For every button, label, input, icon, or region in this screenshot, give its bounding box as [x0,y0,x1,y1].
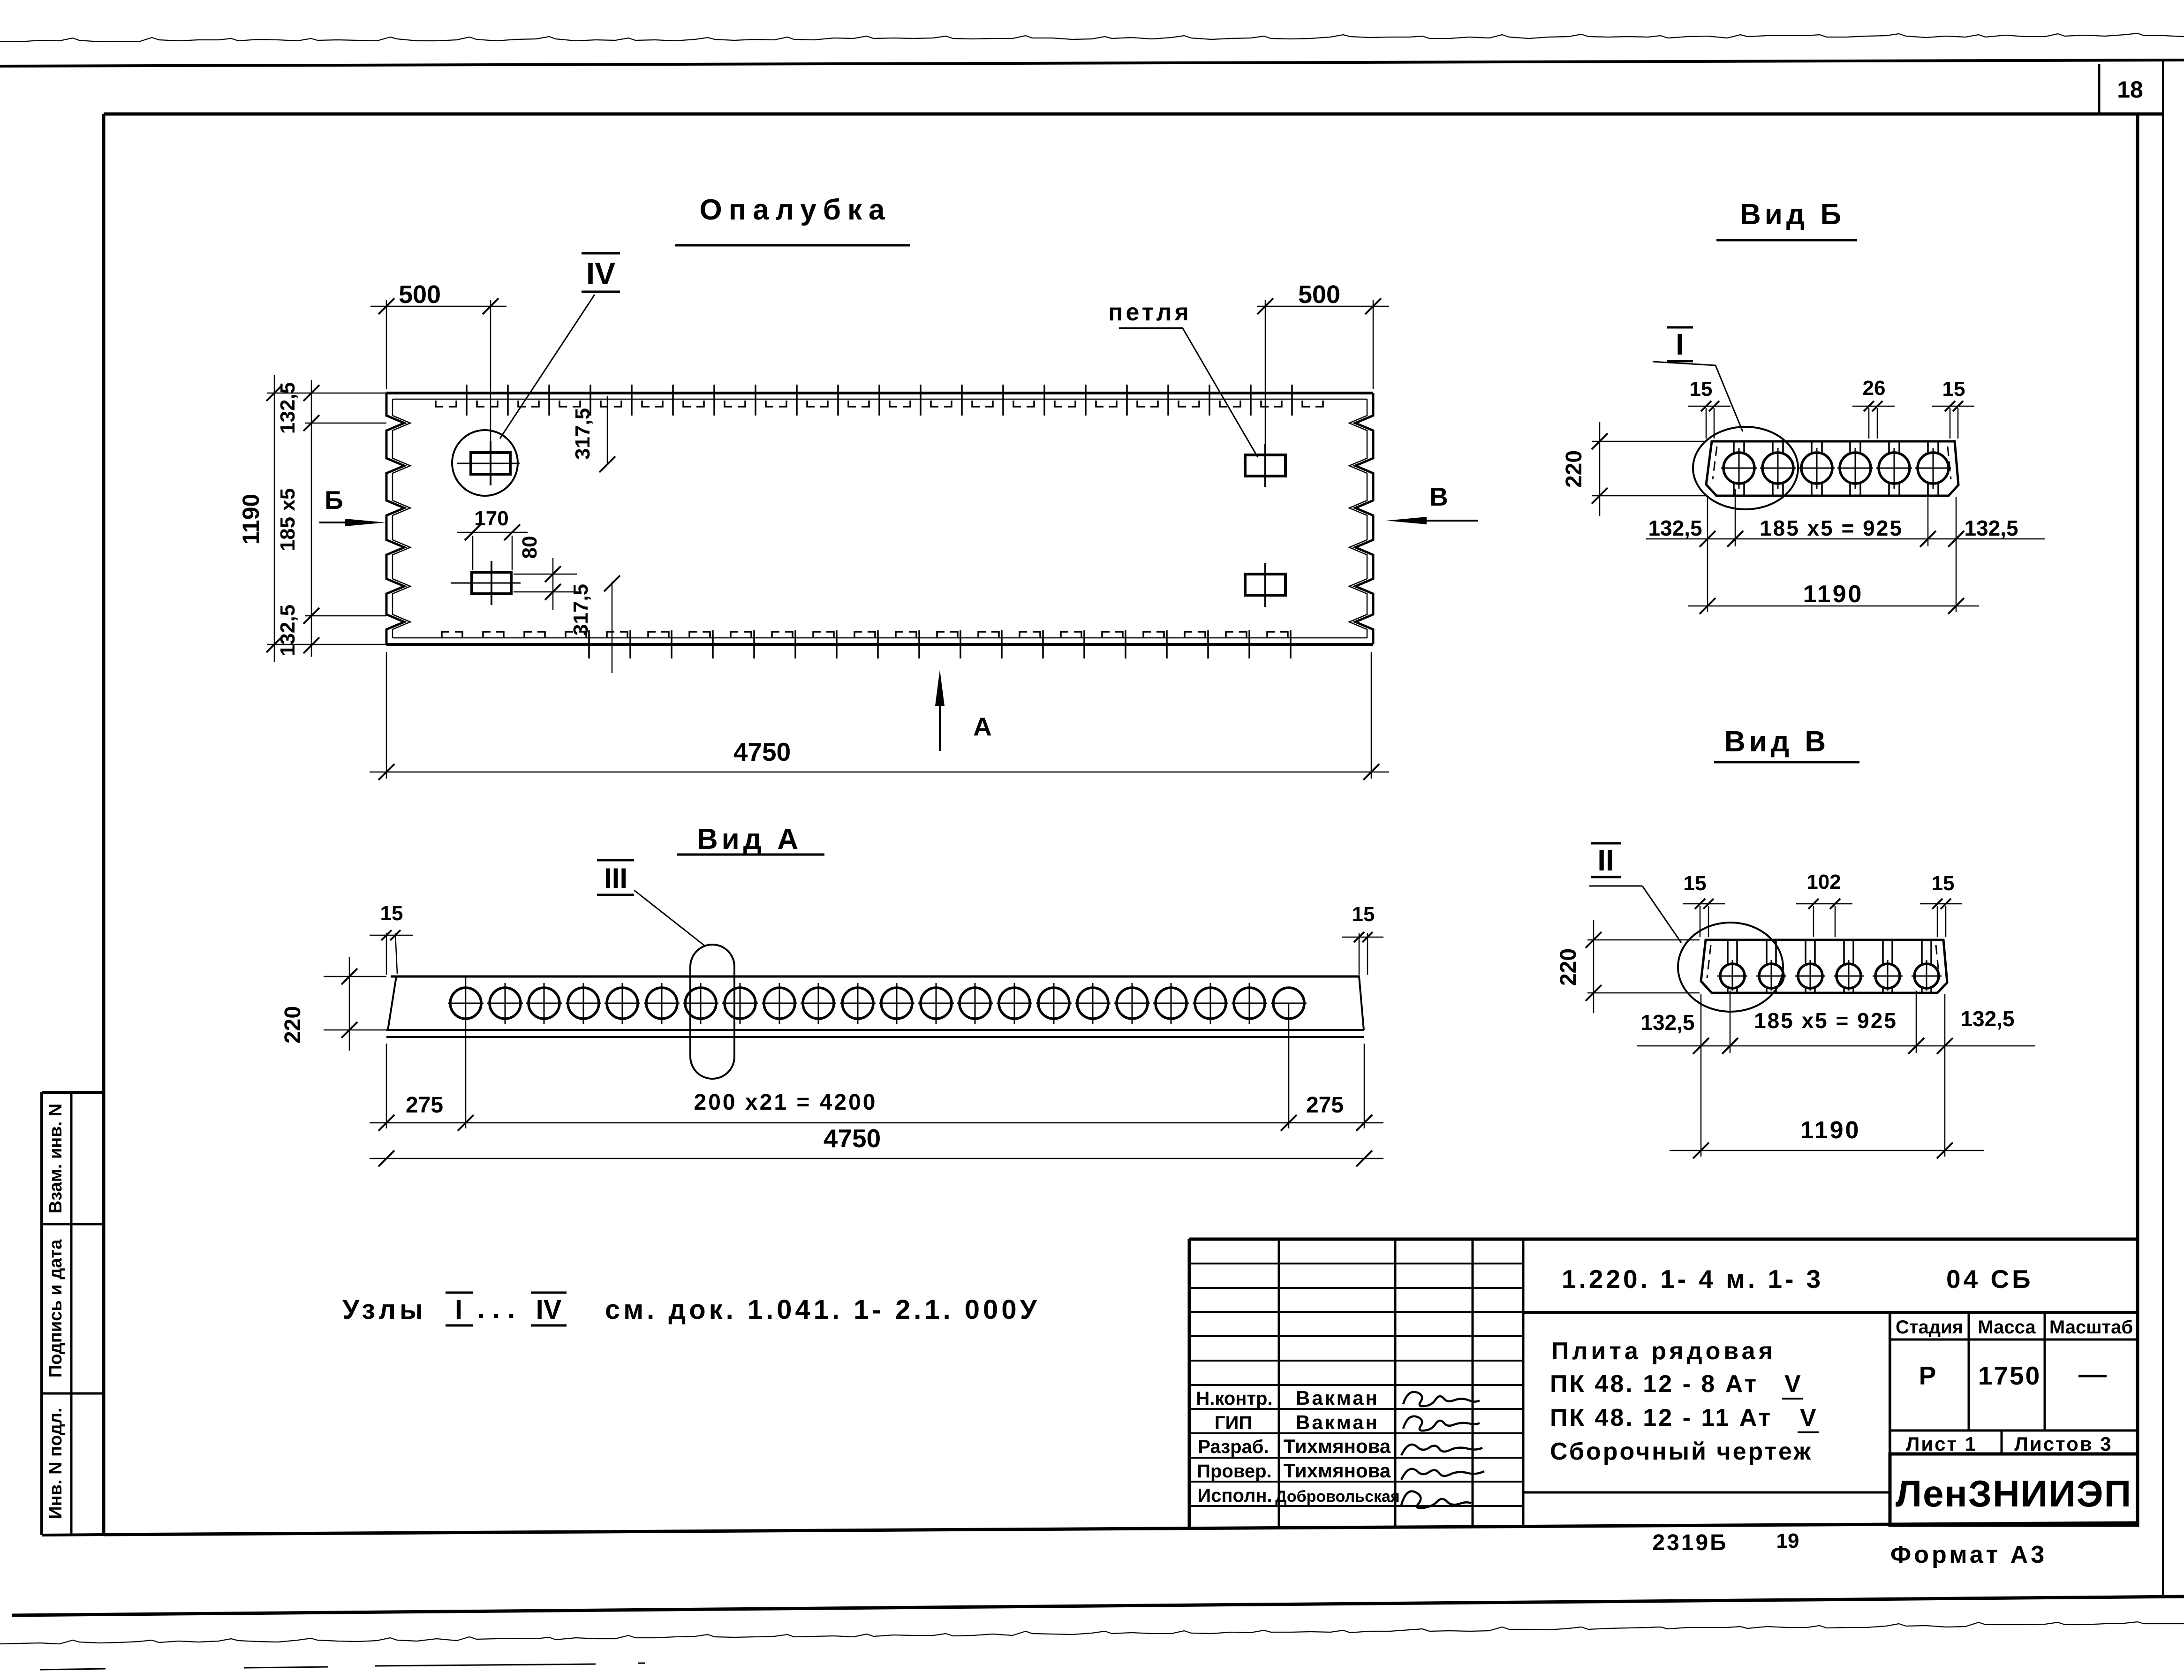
dimension 4750 (view A) [370,1158,1383,1159]
plan bottom edge tick marks [588,630,590,658]
dimension 15 left (view В) [1700,906,1701,937]
dimension 220 (view В) [1587,939,1700,941]
svg-text:Масштаб: Масштаб [2049,1317,2133,1338]
svg-text:Н.контр.: Н.контр. [1196,1388,1272,1409]
svg-text:185 x5 = 925: 185 x5 = 925 [1760,516,1903,540]
dimension 102 (view В) [1813,906,1814,937]
dimension 15 left (view A) [386,931,396,974]
lifting loop петля top-left (node IV) [471,453,510,474]
dimension 275 / 200x21=4200 / 275 (view A) [465,976,467,1128]
svg-text:I: I [455,1294,462,1325]
dimension 317,5 lower [612,582,613,673]
lifting loop петля bottom-left [472,572,511,594]
svg-text:185 x5 = 925: 185 x5 = 925 [1754,1008,1897,1033]
view A hollow core circles [450,988,481,1019]
dimension 220 (view A) [324,976,386,977]
section arrow В [1397,520,1478,522]
view arrow A [939,681,941,751]
dimension 26 (view Б) [1868,408,1870,439]
svg-text:15: 15 [1690,378,1713,401]
view Б end keyway dashes [1713,446,1717,479]
plan outline top edge [386,392,1373,394]
torn paper edge top [0,33,2184,42]
paper scraps below bottom edge [40,1669,106,1670]
dimension 15 left (view Б) [1706,408,1707,439]
svg-text:IV: IV [536,1294,562,1325]
dimension 1190 (plan left) [267,393,386,394]
plan top edge dashed keyway marks [436,401,456,407]
svg-text:132,5: 132,5 [1960,1006,2014,1031]
svg-text:Сборочный чертеж: Сборочный чертеж [1550,1438,1813,1465]
svg-text:500: 500 [1298,280,1340,309]
signatures (handwritten) [1403,1392,1480,1407]
svg-text:Провер.: Провер. [1197,1461,1271,1482]
svg-text:Вакман: Вакман [1296,1411,1379,1433]
title block стадия/масса/масштаб grid [1890,1339,2138,1341]
leader line II [1589,885,1642,887]
detail ellipse II boundary [1678,923,1783,1012]
svg-text:Взам. инв. N: Взам. инв. N [46,1104,66,1213]
view В slab cross-section outline [1701,940,1947,993]
view Б slab cross-section outline [1706,441,1958,496]
detail capsule III boundary [690,945,734,1079]
svg-text:170: 170 [474,507,508,530]
left stamp column box [40,1092,43,1535]
drawing frame [104,113,2163,116]
detail ellipse I boundary [1693,427,1798,509]
svg-text:II: II [1597,843,1614,877]
svg-text:500: 500 [399,280,441,309]
svg-text:132,5: 132,5 [276,605,299,656]
dimension 80 (lower loop) [514,574,577,575]
svg-text:ПК 48. 12 - 11 Ат: ПК 48. 12 - 11 Ат [1550,1404,1772,1431]
svg-text:185 x5: 185 x5 [276,488,299,552]
svg-text:. . .: . . . [477,1294,515,1324]
svg-text:ГИП: ГИП [1215,1413,1252,1433]
view В hollow core circles [1720,964,1745,988]
svg-text:132,5: 132,5 [1964,516,2018,540]
svg-text:III: III [604,863,627,894]
leader line III [634,890,704,946]
torn paper edge bottom [0,1622,2184,1644]
svg-text:Формат А3: Формат А3 [1890,1541,2047,1568]
dimension 1190 (view Б) [1707,546,1708,612]
title block ЛенЗНИИЭП box [1890,1454,2138,1525]
svg-text:1190: 1190 [1800,1117,1861,1144]
svg-text:Вид А: Вид А [697,823,802,855]
dimension 317,5 upper [607,396,608,465]
title block document number band [1523,1311,2138,1314]
dimension 220 (view Б) [1592,441,1706,442]
svg-text:220: 220 [280,1006,305,1044]
svg-text:Добровольская: Добровольская [1275,1488,1400,1506]
dimension 15 right (view Б) [1950,408,1951,439]
svg-text:19: 19 [1776,1529,1799,1552]
svg-text:132,5: 132,5 [276,382,299,434]
svg-text:I: I [1676,327,1684,361]
svg-text:V: V [1800,1404,1816,1431]
svg-text:15: 15 [1942,378,1965,401]
sheet bottom edge line [12,1597,2184,1615]
dimension 500 left (plan) [386,300,387,389]
svg-text:26: 26 [1863,377,1886,400]
svg-text:ЛенЗНИИЭП: ЛенЗНИИЭП [1896,1473,2132,1514]
plan outline left zigzag edge [386,393,404,644]
dimension 170 (lower loop) [472,536,474,570]
leader line I [1653,362,1715,365]
svg-text:Б: Б [325,485,343,515]
dimension 1190 (view В) [1700,1053,1702,1157]
title block лист/листов row [2001,1430,2003,1454]
sheet right edge line [2162,61,2164,1598]
svg-text:1750: 1750 [1978,1361,2041,1390]
svg-text:Лист 1: Лист 1 [1906,1433,1977,1455]
dimension 15 right (view A) [1359,933,1360,975]
title block outer border [1189,1238,2138,1241]
svg-text:15: 15 [1684,872,1707,895]
page number box [2098,64,2101,114]
svg-text:В: В [1429,482,1448,511]
dimension 132,5 / 185x5=925 / 132,5 (view В) [1700,994,1702,1053]
svg-text:Вид Б: Вид Б [1740,198,1845,231]
svg-text:18: 18 [2117,76,2143,103]
svg-text:102: 102 [1806,870,1841,893]
leader line IV [500,295,595,439]
plan bottom edge dashed keyway marks [442,632,462,638]
svg-text:80: 80 [518,536,541,559]
svg-text:Тихмянова: Тихмянова [1284,1435,1391,1457]
svg-text:Вакман: Вакман [1296,1387,1379,1409]
svg-text:Тихмянова: Тихмянова [1284,1460,1391,1482]
title block signature table [1278,1239,1280,1528]
svg-text:V: V [1784,1370,1801,1398]
dimension 15 right (view В) [1937,906,1938,937]
svg-text:Опалубка: Опалубка [699,194,891,226]
svg-text:200 x21 = 4200: 200 x21 = 4200 [694,1090,877,1115]
dimension 132,5 / 185x5 / 132,5 (plan left) [305,423,386,424]
svg-text:275: 275 [406,1093,443,1118]
svg-text:Узлы: Узлы [342,1294,427,1325]
svg-text:А: А [973,712,992,741]
svg-text:1190: 1190 [238,494,264,545]
svg-text:4750: 4750 [824,1124,881,1153]
svg-text:Подпись и дата: Подпись и дата [46,1239,66,1377]
lifting loop петля bottom-right [1245,574,1285,595]
plan outline bottom edge [386,643,1373,646]
svg-text:220: 220 [1562,450,1587,488]
svg-text:Вид В: Вид В [1724,726,1829,758]
svg-text:Разраб.: Разраб. [1198,1437,1269,1457]
svg-text:15: 15 [1932,872,1955,895]
svg-text:15: 15 [380,902,403,925]
svg-text:см. док. 1.041. 1- 2.1. 000У: см. док. 1.041. 1- 2.1. 000У [605,1294,1040,1325]
sheet top edge line [0,60,2184,66]
svg-text:Масса: Масса [1978,1317,2036,1338]
svg-text:04 СБ: 04 СБ [1946,1264,2033,1294]
dimension 500 right (plan) [1373,300,1374,389]
plan top edge tick marks [466,385,468,416]
svg-text:220: 220 [1556,948,1581,986]
view Б hollow core circles [1723,453,1754,484]
svg-text:4750: 4750 [733,737,791,766]
dimension 4750 (plan) [386,652,387,779]
svg-text:15: 15 [1352,903,1375,926]
view A slab outline [391,976,1360,978]
svg-text:132,5: 132,5 [1648,516,1702,540]
view В end keyway dashes [1707,945,1711,978]
svg-text:Стадия: Стадия [1896,1317,1963,1338]
svg-text:275: 275 [1306,1093,1344,1118]
svg-text:1.220. 1- 4 м. 1- 3: 1.220. 1- 4 м. 1- 3 [1562,1264,1823,1294]
lifting loop петля top-right [1245,455,1285,476]
svg-text:IV: IV [586,256,615,291]
svg-text:1190: 1190 [1803,581,1864,608]
svg-text:2319Б: 2319Б [1652,1530,1728,1555]
title block name cell bottom [1523,1491,1890,1494]
svg-text:Р: Р [1919,1361,1936,1390]
svg-text:Исполн.: Исполн. [1197,1485,1272,1506]
section arrow Б [319,522,375,523]
detail circle IV boundary [452,430,518,496]
svg-text:Инв. N подл.: Инв. N подл. [46,1408,66,1519]
svg-text:317,5: 317,5 [571,408,594,460]
svg-text:317,5: 317,5 [569,584,592,636]
svg-text:Листов 3: Листов 3 [2014,1433,2112,1455]
svg-text:132,5: 132,5 [1640,1010,1694,1035]
svg-text:ПК 48. 12 - 8 Ат: ПК 48. 12 - 8 Ат [1550,1370,1758,1398]
svg-text:петля: петля [1108,299,1192,326]
dimension 132,5 / 185x5=925 / 132,5 (view Б) [1707,497,1708,546]
plan outline right zigzag edge [1355,393,1373,644]
svg-text:Плита рядовая: Плита рядовая [1551,1338,1776,1365]
